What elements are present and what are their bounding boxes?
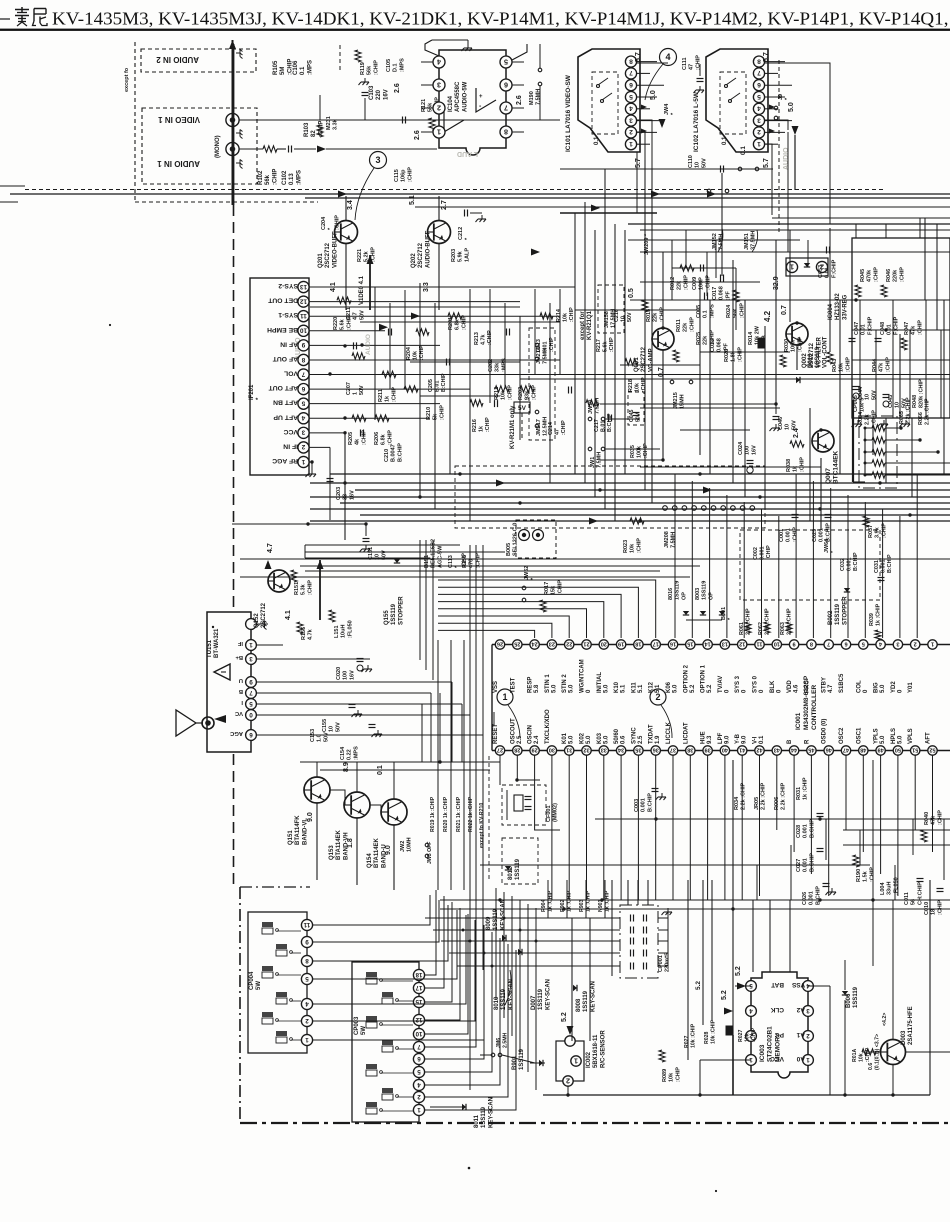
wire (519, 900, 521, 1054)
wire (732, 260, 734, 483)
svg-text::CHIP: :CHIP (439, 405, 445, 420)
wire (240, 558, 950, 560)
svg-text:B: B (787, 739, 793, 744)
svg-text:1: 1 (806, 1056, 810, 1063)
IC001 top pin 5 (859, 640, 868, 649)
bus wire y218 (772, 217, 950, 219)
wire (894, 865, 896, 900)
svg-text:C028: C028 (796, 825, 802, 838)
CP003 pin 1 (413, 1104, 424, 1115)
svg-text:BT-WA321: BT-WA321 (214, 628, 220, 658)
svg-text:C048: C048 (880, 322, 886, 335)
band connector circles (663, 506, 668, 511)
svg-text:R204: R204 (406, 347, 412, 360)
svg-text:JW62: JW62 (524, 566, 530, 580)
svg-text::CHIP: :CHIP (885, 357, 891, 372)
resistor R220 (337, 297, 351, 303)
svg-text:A1: A1 (796, 1031, 805, 1038)
wire (809, 408, 811, 521)
svg-text:BTA114EK: BTA114EK (374, 837, 380, 868)
svg-text:43: 43 (774, 747, 780, 753)
svg-text:12: 12 (300, 297, 308, 304)
VCC drop (343, 431, 346, 434)
AGC arrow up (317, 560, 324, 569)
svg-text:8: 8 (629, 57, 633, 64)
IC001 top pin 18 (634, 640, 643, 649)
svg-text:AUDIO: AUDIO (365, 334, 372, 355)
svg-text:OP: OP (708, 592, 714, 600)
svg-text:31: 31 (566, 747, 572, 753)
wire (637, 61, 657, 63)
svg-text:1.9: 1.9 (655, 735, 661, 744)
svg-text:STBY: STBY (822, 677, 828, 693)
svg-text:16V: 16V (349, 670, 355, 680)
svg-text:1SS119: 1SS119 (538, 988, 544, 1010)
svg-text:R040: R040 (924, 812, 930, 825)
upper bus wire 1 (10, 193, 950, 195)
IC001 bottom pin 30 (547, 746, 556, 755)
svg-text:16V: 16V (383, 89, 389, 100)
svg-text:Q155: Q155 (384, 610, 390, 625)
svg-text:9.0: 9.0 (307, 812, 314, 822)
wire y379 (520, 378, 950, 380)
svg-text:except fo: except fo (124, 67, 130, 92)
signal arrow (411, 313, 420, 320)
svg-text:4.1: 4.1 (285, 610, 292, 620)
svg-text:C203: C203 (336, 487, 342, 500)
svg-text:SYNC: SYNC (631, 727, 637, 744)
svg-text:1: 1 (931, 641, 934, 647)
svg-text:5.7: 5.7 (763, 158, 770, 168)
transistor Q002 VC-FILTER (786, 323, 808, 345)
arrow down IC102 (792, 126, 799, 135)
RF AGC gnd (310, 460, 313, 463)
svg-text:7: 7 (249, 689, 253, 696)
band dashed box (455, 466, 765, 528)
IC104 pin 6 (500, 79, 512, 91)
paper specks (468, 1167, 471, 1170)
wire (495, 888, 497, 1000)
wire (637, 143, 650, 145)
wire (637, 84, 664, 86)
tuner pin 6 (246, 730, 257, 741)
svg-text:1: 1 (301, 458, 305, 465)
wire (611, 880, 613, 976)
svg-text:100: 100 (343, 671, 349, 680)
upper bus wire 2 (305, 197, 950, 199)
wire (909, 330, 911, 418)
svg-text:33k: 33k (495, 362, 501, 372)
svg-text:10k :CHIP: 10k :CHIP (690, 1023, 696, 1048)
svg-text:C205: C205 (428, 379, 434, 392)
svg-text:16V: 16V (751, 445, 757, 455)
svg-text:10: 10 (300, 327, 308, 334)
svg-text:CP001: CP001 (658, 955, 664, 972)
wire (489, 289, 491, 403)
svg-text:0.1: 0.1 (722, 136, 728, 145)
svg-text:2: 2 (437, 104, 441, 113)
IC001 top pin 26 (495, 640, 504, 649)
svg-text:18: 18 (931, 909, 937, 915)
svg-text:Q201: Q201 (318, 253, 324, 268)
IC001 bottom pin 49 (876, 746, 885, 755)
op-amp U1a triangle (476, 88, 496, 112)
svg-text:R063: R063 (780, 622, 786, 635)
svg-text:18: 18 (415, 971, 422, 978)
svg-text:5.6k: 5.6k (340, 318, 346, 330)
wire (421, 704, 423, 762)
tuner pin gnd (260, 623, 264, 625)
IF201 pin 4 AFT UP (298, 413, 309, 424)
svg-text:0.1: 0.1 (703, 310, 709, 318)
svg-text:9.3: 9.3 (707, 735, 713, 744)
wire (672, 267, 736, 269)
CP004 pin 2 (301, 1015, 312, 1026)
signal arrow (589, 518, 598, 525)
resistor R102 (263, 146, 277, 152)
IC001 body (492, 644, 950, 646)
svg-text:23: 23 (549, 641, 555, 647)
svg-text:BTA114FK: BTA114FK (295, 815, 301, 845)
dashed partial box right (740, 530, 880, 600)
wire (389, 303, 391, 389)
svg-text:F:CHIP: F:CHIP (867, 316, 873, 335)
svg-text:7.5MH: 7.5MH (536, 89, 542, 105)
IC001 top pin 6 (841, 640, 850, 649)
wire (434, 303, 436, 509)
svg-text::MPS: :MPS (501, 358, 507, 372)
svg-text:C002: C002 (753, 547, 759, 560)
svg-text:L AUD: L AUD (457, 150, 478, 157)
svg-text:C216: C216 (614, 309, 620, 322)
svg-text:R203: R203 (451, 249, 457, 262)
op-amp U1b triangle (444, 108, 464, 132)
IC104 pin 7 (500, 102, 512, 114)
CP003 pin 10 (413, 1028, 424, 1039)
svg-text:B:CHIP: B:CHIP (647, 793, 653, 812)
IC101 pin 7 (625, 68, 636, 79)
svg-text:22k: 22k (653, 312, 659, 322)
IC002 R/C sensor (556, 1041, 584, 1081)
svg-text:5k: 5k (433, 413, 439, 420)
svg-text:9: 9 (793, 641, 796, 647)
svg-text:3: 3 (896, 641, 899, 647)
svg-text:R025: R025 (696, 332, 702, 345)
wire (449, 318, 451, 474)
svg-text:F:CHIP: F:CHIP (831, 259, 837, 278)
svg-text::CHIP: :CHIP (917, 320, 923, 335)
svg-text::CHIP: :CHIP (487, 330, 493, 345)
svg-text:16: 16 (670, 641, 676, 647)
svg-text:2.2k :CHIP: 2.2k :CHIP (761, 782, 767, 810)
svg-text:6: 6 (629, 81, 633, 88)
wire pin5 right (512, 44, 527, 60)
IC001 bottom pin 27 (495, 746, 504, 755)
svg-text:B.0047: B.0047 (391, 444, 397, 462)
wire (699, 280, 701, 455)
svg-text:10k :CHIP: 10k :CHIP (710, 1019, 716, 1044)
svg-text:Q153: Q153 (329, 845, 335, 860)
CP003 pin 18 (413, 969, 424, 980)
wire (859, 830, 861, 865)
CP001 capacitor 1 (630, 915, 632, 922)
wire (640, 281, 760, 283)
svg-text:0.068: 0.068 (719, 286, 725, 300)
svg-text:LICCLK: LICCLK (666, 721, 672, 744)
IC001 bottom pin 42 (755, 746, 764, 755)
svg-text::PF: :PF (725, 291, 731, 301)
svg-text:C204: C204 (321, 216, 327, 230)
svg-text:R062: R062 (758, 622, 764, 635)
IF201 connector box (250, 278, 309, 475)
svg-text:IC102 LA7016 L-5W: IC102 LA7016 L-5W (693, 91, 700, 152)
svg-text:2: 2 (757, 128, 761, 135)
svg-text:C005: C005 (696, 305, 702, 318)
wire (943, 819, 945, 880)
IC003 pin A2 right (803, 1006, 814, 1017)
diode at 397 (394, 559, 400, 563)
CF001 resonator (502, 785, 546, 825)
svg-text:R012: R012 (670, 277, 676, 290)
svg-text:7: 7 (417, 1043, 421, 1050)
svg-text:18: 18 (635, 641, 641, 647)
svg-text:0.001: 0.001 (641, 798, 647, 812)
IC001 bottom pin 45 (807, 746, 816, 755)
svg-text:6: 6 (844, 641, 847, 647)
svg-text:U: U (239, 677, 243, 683)
CP005 resistor 3 (865, 451, 872, 453)
svg-text:0.13: 0.13 (289, 173, 295, 185)
svg-text:0: 0 (249, 711, 253, 718)
svg-text:R039: R039 (869, 613, 875, 626)
svg-text:B005: B005 (506, 543, 512, 556)
svg-text:8011: 8011 (474, 1114, 480, 1128)
wire (614, 224, 616, 521)
IC102 pin 2 (753, 127, 764, 138)
svg-text:7: 7 (301, 370, 305, 377)
svg-text:M34302M8-612SP: M34302M8-612SP (803, 675, 810, 730)
wire (512, 107, 524, 109)
resistor (352, 353, 365, 359)
svg-text::MPS: :MPS (399, 58, 405, 72)
svg-text:0.5: 0.5 (628, 288, 635, 298)
svg-text:5: 5 (504, 58, 508, 67)
svg-text:SYS-1: SYS-1 (278, 311, 298, 318)
IC001 bottom pin 51 (911, 746, 920, 755)
svg-text:RE5.1E5B2: RE5.1E5B2 (431, 539, 437, 568)
CP005 resistor 2 (865, 439, 872, 441)
wire (519, 316, 521, 440)
IC102 body outline (706, 49, 768, 152)
svg-text:1SS119: 1SS119 (515, 858, 521, 880)
svg-text:4: 4 (629, 105, 633, 112)
wire (624, 230, 626, 474)
resistor R211 (382, 371, 396, 377)
capacitor (506, 329, 508, 336)
jumper M158 box (598, 285, 624, 333)
wire (512, 61, 524, 63)
svg-text:9: 9 (301, 341, 305, 348)
wire (943, 300, 945, 474)
svg-text:5.0: 5.0 (569, 684, 575, 693)
wire vol long (605, 418, 640, 420)
svg-text:C047: C047 (854, 322, 860, 335)
svg-text:3: 3 (437, 81, 441, 90)
IC003 memory (751, 972, 808, 1078)
svg-text:IC002: IC002 (586, 1051, 592, 1068)
svg-text:2.6: 2.6 (414, 130, 421, 140)
svg-text:F:CHIP: F:CHIP (893, 316, 899, 335)
svg-text:IC001: IC001 (795, 712, 802, 730)
svg-text:R035: R035 (630, 445, 636, 458)
svg-text:R190: R190 (856, 869, 862, 882)
svg-text::CHIP: :CHIP (689, 317, 695, 332)
callout circle 3 (370, 152, 387, 169)
IC101 pin 4 (625, 103, 636, 114)
zener IC004 33V-REG (786, 261, 797, 272)
svg-text:KEY-SCAN: KEY-SCAN (545, 979, 551, 1010)
svg-text:5.0: 5.0 (897, 735, 903, 744)
svg-text:10k: 10k (669, 1072, 675, 1082)
wire (765, 143, 778, 145)
audio input jack J2 (226, 142, 239, 155)
wire audio mono (239, 148, 263, 150)
wire (640, 251, 950, 253)
svg-text::CHIP: :CHIP (561, 420, 567, 435)
svg-text:1: 1 (249, 641, 253, 648)
svg-text:BAT: BAT (771, 981, 784, 988)
CP003 pin 12 (413, 1014, 424, 1025)
svg-text:3: 3 (301, 429, 305, 436)
svg-text:1SS119: 1SS119 (583, 990, 589, 1012)
collector wires up (316, 762, 318, 777)
svg-text:50V: 50V (335, 722, 341, 732)
IC003 pin CLK (746, 1006, 757, 1017)
svg-text:0.7: 0.7 (781, 305, 788, 315)
svg-text:A2: A2 (796, 1006, 805, 1013)
svg-text:MEMORY: MEMORY (774, 1032, 781, 1062)
svg-text:AUDIO-5W: AUDIO-5W (462, 81, 468, 112)
svg-text:C213: C213 (536, 339, 542, 352)
svg-text:3: 3 (249, 655, 253, 662)
IC104 pin 1 (433, 126, 445, 138)
svg-text:0.1: 0.1 (759, 735, 765, 744)
svg-text:RESET: RESET (493, 724, 499, 744)
svg-text:50V: 50V (901, 398, 907, 408)
band junction dots (343, 481, 346, 484)
svg-text:STIN 2: STIN 2 (562, 674, 568, 693)
svg-text:2.6: 2.6 (516, 95, 523, 105)
svg-text::CHIP: :CHIP (766, 545, 772, 560)
svg-text::CHIP: :CHIP (569, 307, 575, 322)
IC001 top pin 4 (876, 640, 885, 649)
svg-text:39: 39 (704, 747, 710, 753)
wire (469, 715, 471, 762)
svg-text:3: 3 (757, 116, 761, 123)
svg-text:<4.2>: <4.2> (882, 1013, 888, 1026)
svg-text:C111: C111 (682, 57, 688, 70)
svg-text:B:CHIP: B:CHIP (441, 373, 447, 392)
IC003 pin VSS right (803, 981, 814, 992)
svg-text:CP004: CP004 (249, 971, 255, 990)
svg-text:B:CHIP: B:CHIP (853, 552, 859, 571)
wire (892, 300, 894, 418)
IC104 pin 4 (433, 56, 445, 68)
svg-text:0.1: 0.1 (300, 66, 306, 75)
svg-text:L151: L151 (334, 625, 340, 638)
transistor Q202 AUDIO-BUFF (428, 221, 451, 244)
wire (637, 96, 657, 98)
tuner TU151 box (207, 612, 251, 752)
arrow (769, 129, 775, 134)
svg-text:VSS: VSS (493, 681, 499, 693)
CP003 pin 5 (413, 1066, 424, 1077)
svg-text:4: 4 (305, 1000, 309, 1007)
IC102 pin 7 (753, 68, 764, 79)
svg-text:R01A: R01A (852, 1048, 858, 1062)
svg-text:BLK: BLK (770, 680, 776, 693)
svg-text:2.6: 2.6 (394, 83, 401, 93)
svg-text:(MM02): (MM02) (553, 803, 559, 822)
svg-text:CH:CHIP: CH:CHIP (917, 882, 923, 905)
svg-text:VOL: VOL (284, 370, 298, 377)
capacitor C210 (360, 430, 362, 437)
bus wire y169 (560, 168, 773, 170)
svg-text:2.4: 2.4 (534, 735, 540, 744)
svg-text:LICDAT: LICDAT (683, 722, 689, 744)
keyboard CP003 box (352, 962, 419, 1122)
svg-text:CF001: CF001 (546, 805, 552, 822)
svg-text:VC-AMP: VC-AMP (648, 348, 654, 372)
capacitor C212 (464, 210, 466, 217)
CP004 switches (262, 922, 273, 927)
wire (461, 704, 463, 762)
svg-text:R023: R023 (623, 540, 629, 553)
svg-text::CHIP: :CHIP (609, 337, 615, 352)
svg-text:AF OUT: AF OUT (272, 355, 298, 362)
svg-text:R006: R006 (774, 797, 780, 810)
svg-text:BTC144EK: BTC144EK (833, 450, 840, 484)
svg-text:56k: 56k (367, 65, 373, 75)
wire (637, 131, 657, 133)
svg-text:V-I: V-I (753, 736, 759, 744)
svg-text:R027: R027 (684, 1035, 690, 1048)
svg-text:C214: C214 (548, 422, 554, 435)
svg-text:5.0: 5.0 (673, 684, 679, 693)
svg-text:C155: C155 (322, 719, 328, 732)
svg-text:470k: 470k (867, 269, 873, 282)
svg-text:2.5: 2.5 (638, 735, 644, 744)
IC001 bottom pin 28 (513, 746, 522, 755)
svg-text:WG/NTCAM: WG/NTCAM (580, 659, 586, 693)
tuner pin 3 (246, 654, 257, 665)
svg-text:TU151: TU151 (207, 639, 213, 658)
svg-text:0.001: 0.001 (847, 558, 853, 572)
svg-text:1: 1 (437, 128, 441, 137)
wires AGC cluster (232, 523, 366, 525)
svg-text:C102: C102 (282, 170, 288, 185)
CP003 pin 17 (413, 982, 424, 993)
svg-text:4: 4 (757, 105, 761, 112)
svg-text:Q152: Q152 (254, 613, 260, 628)
svg-text::CHIP: :CHIP (307, 580, 313, 595)
callout circle 4 (660, 49, 677, 66)
bottom border dash-dot (240, 1122, 950, 1124)
transistor Q003 2SA1175 (881, 1040, 906, 1065)
svg-text:B:CHIP: B:CHIP (887, 554, 893, 573)
svg-text::CHIP: :CHIP (557, 580, 563, 595)
svg-text:220: 220 (376, 89, 382, 100)
